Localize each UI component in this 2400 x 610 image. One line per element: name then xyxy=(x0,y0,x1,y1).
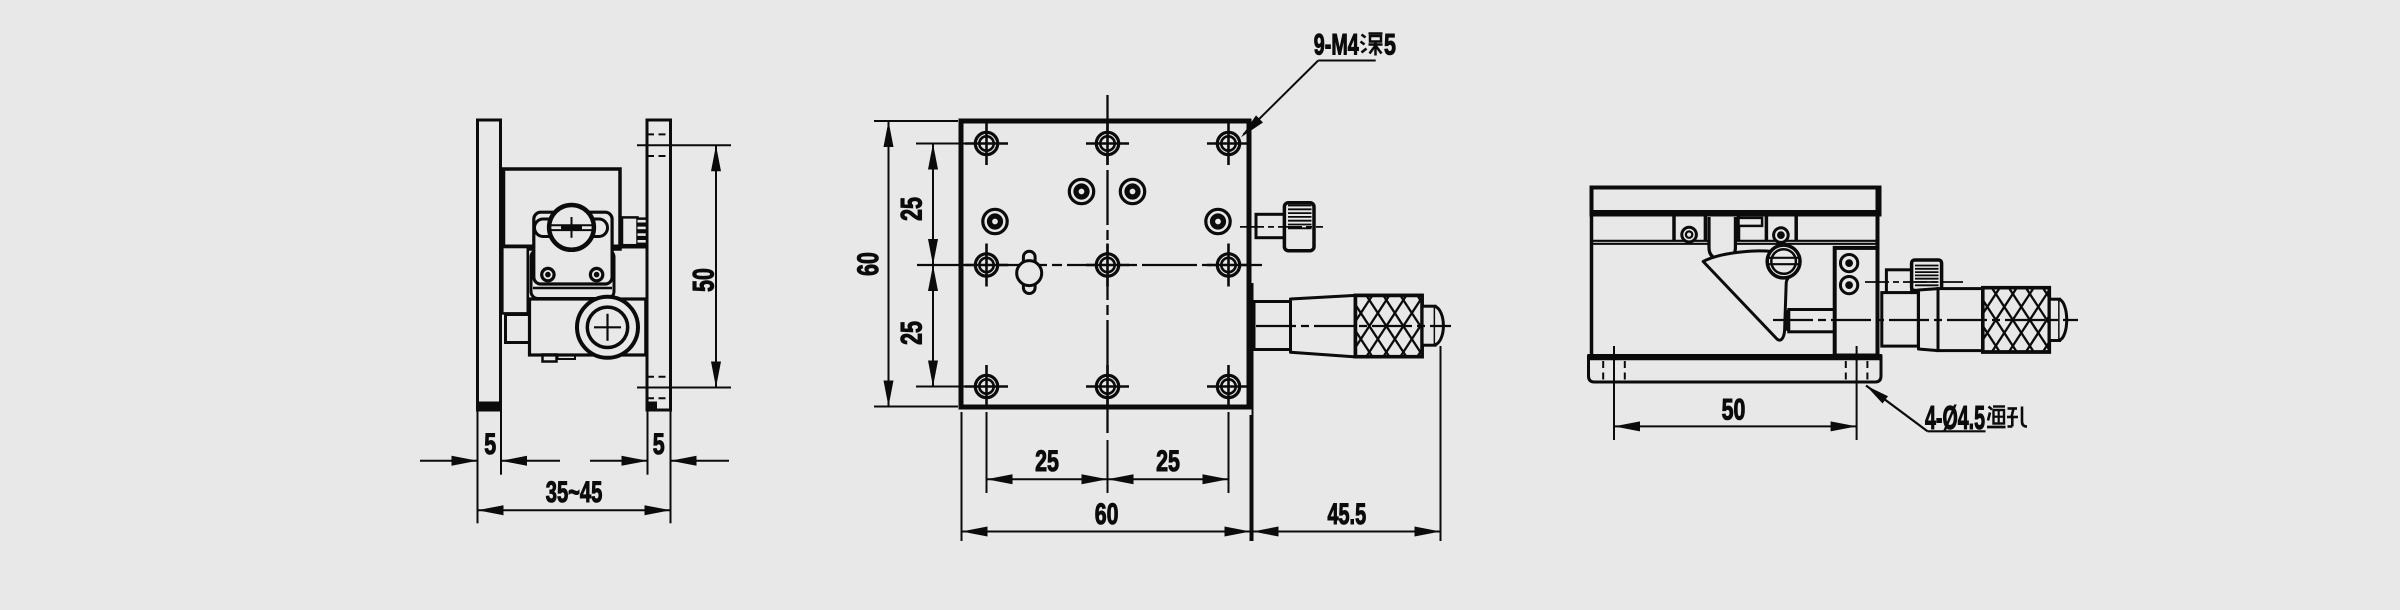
dimension 25/25 (middle left) extension lines xyxy=(916,144,967,387)
M4 hole row2 col1 xyxy=(965,244,1008,287)
label 4-dia4.5 leader line xyxy=(1866,386,1986,432)
svg-text:5: 5 xyxy=(1384,29,1396,62)
label glyph tong (through) xyxy=(1987,407,2006,428)
label glyph shen (deep) xyxy=(1361,34,1383,56)
right view: step rect xyxy=(1739,218,1763,226)
right view: actuator rod xyxy=(1786,310,1835,332)
dimension 5 (left plate) extension lines xyxy=(478,410,502,523)
right view: flexure triangle xyxy=(1703,251,1797,340)
dimension 35~45 line and arrows xyxy=(478,505,671,515)
right view: stage screw A xyxy=(1682,227,1697,242)
dimension 50 (right view) extension lines xyxy=(1614,346,1857,440)
middle view: vertical centerline xyxy=(1106,95,1108,433)
left view: bracket base plate xyxy=(531,250,614,299)
dimension 45.5 line and arrows xyxy=(1253,527,1441,537)
right view: lock screw knob xyxy=(1912,260,1942,291)
svg-text:5: 5 xyxy=(484,428,496,461)
counterbore hole mid right xyxy=(1206,209,1230,233)
dimension 25/25 (middle left) lines and arrows xyxy=(928,144,938,387)
svg-text:25: 25 xyxy=(1156,445,1180,478)
svg-text:4-Ø4.5: 4-Ø4.5 xyxy=(1925,399,1985,436)
right view: micrometer centerline xyxy=(1773,319,2078,321)
left view: top bracket xyxy=(534,212,612,284)
svg-text:60: 60 xyxy=(852,252,885,276)
left view: lower slide block xyxy=(530,299,646,355)
right view: clamp block screw lower xyxy=(1840,276,1857,293)
left view: narrow side plate xyxy=(502,247,528,313)
middle view: micrometer end cap xyxy=(1422,306,1443,345)
right view: top plate xyxy=(1592,188,1880,215)
label 9-M4deep5 leader line xyxy=(1241,61,1376,138)
svg-text:25: 25 xyxy=(1035,445,1059,478)
left view: bracket corner screw left xyxy=(542,268,554,280)
middle view: micrometer cone xyxy=(1291,295,1356,357)
right view: stage screw B xyxy=(1774,228,1789,243)
left view: bracket corner screw right xyxy=(590,268,602,280)
label glyph kong (hole) xyxy=(2007,407,2027,427)
right view: clamp block xyxy=(1835,248,1878,356)
dimension 5 (right plate) extension lines xyxy=(648,410,671,523)
M4 hole row1 col2 xyxy=(1086,122,1129,165)
left view: lock knob edge-on xyxy=(622,217,646,245)
middle view: keyhole slot xyxy=(1017,251,1042,293)
M4 hole row1 col1 xyxy=(965,122,1008,165)
svg-text:9-M4: 9-M4 xyxy=(1314,29,1359,62)
right view: center tab xyxy=(1709,217,1735,259)
counterbore hole top left xyxy=(1069,179,1093,203)
right view: base hole hidden lines left xyxy=(1603,361,1625,381)
left view: lower block side stub xyxy=(506,315,533,343)
middle view: base plate square xyxy=(961,121,1249,407)
svg-text:25: 25 xyxy=(896,321,929,345)
right view: micrometer shaft xyxy=(1882,293,1919,347)
middle view: lock thumbscrew stem xyxy=(1256,214,1284,237)
left view: stage body xyxy=(501,169,648,249)
right view: micrometer knurled barrel xyxy=(1924,288,2170,352)
M4 hole row3 col2 xyxy=(1086,365,1129,408)
middle view: micrometer knurled barrel xyxy=(1298,295,1542,356)
dimension 50 (right view) line and arrows xyxy=(1614,421,1857,431)
dimension 60 (middle bottom) line and arrows xyxy=(962,527,1251,537)
M4 hole row3 col1 xyxy=(965,365,1008,408)
left view: lower micrometer screw circle xyxy=(577,297,638,358)
right view: lock screw centerline xyxy=(1865,281,1963,283)
dimension 60 (middle left) extension lines xyxy=(874,121,958,407)
M4 hole row1 col3 xyxy=(1207,122,1250,165)
dimension 25/25 (middle bottom) extension lines xyxy=(987,412,1229,493)
right view: stage band dividers xyxy=(1674,215,1796,241)
dimension 25/25 (middle bottom) lines and arrows xyxy=(987,474,1229,484)
dimension 50 (left view) extension lines xyxy=(637,145,731,387)
svg-text:45.5: 45.5 xyxy=(1328,498,1367,531)
right view: lock screw stem xyxy=(1886,270,1911,293)
middle view: lock thumbscrew centerline xyxy=(1240,226,1323,228)
dimension 45.5 extension lines xyxy=(1253,283,1441,541)
right view: base xyxy=(1589,356,1882,383)
right view: body side edges xyxy=(1592,188,1878,356)
right view: micrometer end cap xyxy=(2049,299,2066,340)
left view: right plate hidden hole lines xyxy=(647,134,671,398)
left view: lower block feet xyxy=(543,355,576,362)
svg-text:60: 60 xyxy=(1095,498,1119,531)
right view: micrometer cylinder xyxy=(1938,289,1983,351)
right view: stage band bottom lines xyxy=(1592,241,1878,244)
dimension 60 (middle bottom) extension lines xyxy=(962,412,1251,541)
counterbore hole mid left xyxy=(983,209,1007,233)
svg-text:50: 50 xyxy=(1722,394,1746,427)
left view: bracket left ear slot xyxy=(535,219,558,237)
svg-text:50: 50 xyxy=(688,268,721,292)
dimension 5 (right plate) arrows and line xyxy=(590,456,729,466)
left view: bracket right ear slot xyxy=(586,219,608,237)
M4 hole row2 col3 xyxy=(1207,244,1250,287)
middle view: horizontal centerline xyxy=(917,264,1262,266)
svg-text:25: 25 xyxy=(896,197,929,221)
dimension 50 (left view) line and arrows xyxy=(711,145,721,387)
right view: micrometer cone xyxy=(1919,289,1939,351)
left view: bracket adjustment screw xyxy=(549,205,594,250)
middle view: micrometer shaft xyxy=(1254,302,1291,350)
M4 hole row2 col2 (center) xyxy=(1086,244,1129,287)
counterbore hole top right xyxy=(1120,179,1144,203)
M4 hole row3 col3 xyxy=(1207,365,1250,408)
svg-text:5: 5 xyxy=(653,428,665,461)
middle view: micrometer centerline xyxy=(1256,325,1451,327)
svg-text:35~45: 35~45 xyxy=(546,476,603,509)
middle view: lock thumbscrew knob xyxy=(1284,203,1314,251)
dimension 5 (left plate) arrows and line xyxy=(420,456,560,466)
right view: clamp block screw upper xyxy=(1840,254,1857,271)
dimension 60 (middle left) line and arrows xyxy=(884,121,894,407)
right view: base hole hidden lines right xyxy=(1846,361,1868,381)
left view: left clamp plate xyxy=(478,120,501,410)
left view: right clamp plate xyxy=(647,120,671,410)
right view: slotted adjustment screw xyxy=(1767,245,1800,278)
